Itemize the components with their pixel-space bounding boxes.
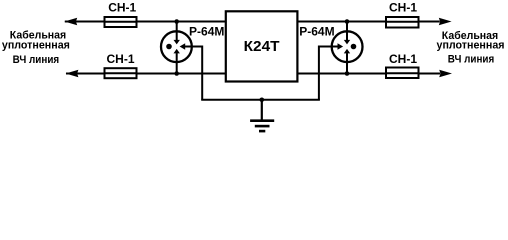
wire left arrester top lead (176, 22, 178, 41)
junction top-left (174, 19, 179, 24)
wire top-right HF line (297, 21, 440, 23)
svg-text:ВЧ линия: ВЧ линия (13, 54, 60, 66)
wire left arrester bottom lead (176, 53, 178, 73)
filter box CH-1 top-left (105, 17, 137, 27)
arrowhead left end top-left wire (64, 18, 77, 25)
svg-text:СН-1: СН-1 (108, 1, 136, 15)
label left cable line text (2, 30, 70, 66)
svg-text:уплотненная: уплотненная (437, 39, 505, 51)
filter box CH-1 bottom-right (386, 68, 419, 79)
arrester P-64M left: body circle (161, 31, 192, 62)
svg-text:К24Т: К24Т (244, 38, 280, 55)
svg-text:Р-64М: Р-64М (189, 25, 224, 39)
arrester P-64M right: electrode dot (351, 44, 357, 50)
svg-text:уплотненная: уплотненная (2, 40, 70, 52)
arrester P-64M right: bottom electrode arrow (344, 49, 350, 54)
junction bottom-right (345, 71, 350, 76)
arrowhead right end top-right wire (439, 18, 452, 25)
label CH-1 bottom-right (389, 52, 417, 66)
junction top-right (345, 19, 350, 24)
label K24T (244, 38, 280, 55)
label P-64M left (189, 25, 224, 39)
arrester P-64M left: electrode dot (166, 44, 172, 50)
filter box CH-1 top-right (386, 17, 419, 28)
label CH-1 top-left (108, 1, 136, 15)
svg-text:СН-1: СН-1 (106, 52, 134, 66)
label CH-1 bottom-left (106, 52, 134, 66)
svg-text:ВЧ линия: ВЧ линия (448, 53, 495, 65)
junction bottom-left (174, 71, 179, 76)
filter box CH-1 bottom-left (105, 68, 137, 78)
svg-text:Р-64М: Р-64М (299, 25, 334, 39)
wire right arrester top lead (346, 22, 348, 41)
label CH-1 top-right (389, 1, 417, 15)
wire bottom-right HF line (297, 73, 440, 75)
unit K24T box (226, 11, 298, 81)
arrowhead left end bottom-left wire (66, 70, 79, 77)
wire right arrester bottom lead (346, 53, 348, 73)
wire top-left HF line (65, 21, 226, 23)
label right cable line text (437, 30, 505, 65)
svg-text:СН-1: СН-1 (389, 52, 417, 66)
label P-64M right (299, 25, 334, 39)
arrowhead right end bottom-right wire (439, 70, 452, 77)
arrester P-64M right: top electrode arrow (344, 40, 350, 45)
wire ground bus (201, 99, 320, 101)
arrester P-64M left: top electrode arrow (174, 40, 180, 45)
arrester P-64M left: bottom electrode arrow (174, 49, 180, 54)
wire bottom-left HF line (66, 73, 226, 75)
svg-text:СН-1: СН-1 (389, 1, 417, 15)
arrester P-64M left: side electrode arrow (180, 43, 186, 49)
ground (250, 121, 274, 131)
arrester P-64M right: side electrode arrow (338, 43, 344, 49)
arrester P-64M right: body circle (332, 31, 363, 62)
wire right arrester side lead to ground bus (319, 47, 338, 100)
wire left arrester side lead to ground bus (185, 47, 202, 100)
junction ground bus (260, 98, 265, 103)
wire ground drop (261, 100, 263, 122)
